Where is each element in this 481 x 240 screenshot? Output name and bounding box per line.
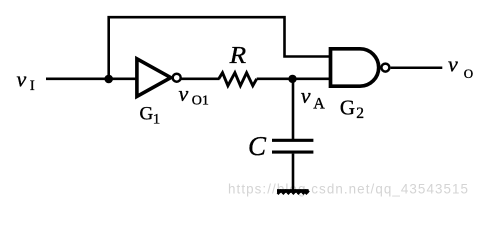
label G2 [340,95,364,122]
wire NAND output [391,67,443,70]
nand gate G2 body [331,49,390,86]
svg-text:C: C [248,131,267,161]
svg-text:v: v [448,52,458,77]
node input junction [104,75,113,84]
capacitor C [272,140,313,152]
wire node A down to capacitor [292,79,295,139]
label vO1 [179,81,209,108]
svg-text:https://blog.csdn.net/qq_43543: https://blog.csdn.net/qq_43543515 [228,182,468,197]
ground [277,190,309,194]
svg-text:v: v [17,67,27,92]
wire resistor to NAND bottom input [257,78,331,81]
svg-text:I: I [30,78,35,94]
svg-text:G: G [140,103,154,124]
svg-text:v: v [179,81,189,106]
wire inverter output to resistor [181,78,219,81]
wire capacitor to ground [292,154,295,190]
svg-text:O1: O1 [192,94,209,109]
label vI [17,67,35,94]
svg-text:2: 2 [356,105,364,122]
label G1 [140,103,161,127]
svg-text:O: O [464,66,473,81]
label vO [448,52,473,81]
inverter G1 [137,59,181,97]
node A [288,75,296,83]
resistor R [219,73,257,86]
svg-text:G: G [340,95,355,119]
svg-text:v: v [301,83,311,108]
svg-text:1: 1 [153,111,161,127]
svg-text:R: R [229,43,247,69]
wire input [46,78,136,81]
label vA [301,83,325,113]
svg-text:A: A [313,96,325,113]
wire feedback from input node to NAND top input [109,17,331,79]
